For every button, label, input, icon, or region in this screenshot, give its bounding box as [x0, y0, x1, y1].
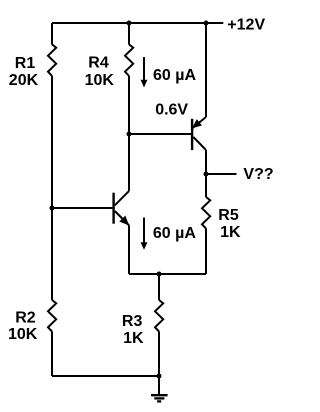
svg-text:10K: 10K — [85, 72, 115, 89]
transistor Q1 collector diagonal — [193, 137, 206, 150]
resistor R1 — [48, 44, 56, 76]
wire Q2 base — [52, 207, 112, 209]
node dot Q1 emitter branch on top rail — [204, 21, 209, 26]
svg-text:R5: R5 — [218, 207, 239, 224]
svg-text:0.6V: 0.6V — [155, 102, 188, 119]
wire to R5 top — [205, 174, 207, 197]
node dot Q1 base branch — [127, 132, 132, 137]
ground bar 2 — [154, 397, 164, 399]
current arrow 60uA upper — [143, 57, 145, 81]
svg-text:R4: R4 — [88, 55, 109, 72]
ground bar 1 — [151, 394, 168, 396]
svg-text:10K: 10K — [8, 326, 38, 343]
svg-text:R2: R2 — [15, 310, 36, 327]
transistor Q2 emitter diagonal — [115, 211, 129, 225]
svg-text:60 µA: 60 µA — [153, 67, 196, 84]
ground bar 3 — [157, 400, 161, 402]
node dot R3 branch — [157, 272, 162, 277]
transistor Q1 base bar — [191, 119, 193, 150]
svg-text:20K: 20K — [9, 72, 39, 89]
wire R4 rail to Q2 collector — [128, 76, 130, 191]
wire top rail — [52, 22, 223, 24]
node dot bottom junction — [157, 374, 162, 379]
node dot R4 branch on top rail — [127, 21, 132, 26]
transistor Q1 emitter arrowhead — [192, 119, 202, 128]
resistor R5 — [202, 197, 210, 229]
current arrow 60uA lower — [143, 218, 145, 243]
wire R4 rail upper — [128, 23, 130, 44]
transistor Q2 base bar — [112, 193, 114, 224]
svg-text:1K: 1K — [123, 330, 144, 347]
wire Q1 base — [129, 133, 191, 135]
wire Q1 emitter vertical — [205, 23, 207, 117]
wire R3 rail upper — [158, 274, 160, 300]
node dot Q2 base junction — [50, 206, 55, 211]
svg-text:R1: R1 — [15, 55, 36, 72]
resistor R4 — [125, 44, 133, 76]
svg-text:+12V: +12V — [227, 17, 265, 34]
wire R3 rail to ground — [158, 332, 160, 395]
svg-text:60 µA: 60 µA — [153, 225, 196, 242]
node dot output — [204, 172, 209, 177]
resistor R3 — [155, 300, 163, 332]
svg-text:R3: R3 — [122, 313, 143, 330]
wire mid horizontal — [129, 273, 206, 275]
wire bottom horizontal — [52, 375, 159, 377]
wire left rail lower — [51, 332, 53, 377]
transistor Q1 emitter diagonal — [192, 117, 206, 128]
wire left rail upper — [51, 23, 53, 44]
transistor Q2 collector diagonal — [115, 191, 129, 205]
wire output stub — [206, 173, 237, 175]
transistor Q2 emitter arrowhead — [119, 216, 129, 226]
resistor R2 — [48, 300, 56, 332]
wire R5 bottom — [205, 229, 207, 275]
wire Q1 collector to output node — [205, 150, 207, 174]
svg-text:V??: V?? — [243, 166, 273, 183]
wire left rail middle — [51, 76, 53, 300]
svg-text:1K: 1K — [220, 224, 241, 241]
wire Q2 emitter vertical — [128, 225, 130, 274]
